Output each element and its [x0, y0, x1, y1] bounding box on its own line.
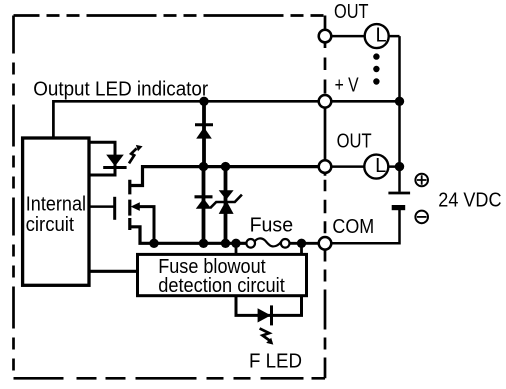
transistor Q1 body arrow head [131, 202, 140, 211]
transistor Q1 channel bar (three segments) [128, 180, 131, 230]
wire: +V rail from internal circuit riser to right vertical bus [53, 101, 399, 138]
fuse end circle left [246, 239, 255, 248]
fuse wavy element [255, 238, 282, 246]
svg-text:Output LED indicator: Output LED indicator [33, 79, 208, 101]
battery plus symbol [415, 174, 428, 187]
wire: detection box sense stub left of fuse [235, 243, 238, 256]
junction node on +V rail at diode column [199, 97, 208, 106]
junction node right bus / +V line [395, 97, 404, 106]
ellipsis dots between loads [373, 53, 379, 59]
module boundary top edge (phantom dashed) [14, 14, 326, 17]
output LED indicator diode (triangle + bar) [106, 155, 124, 167]
wire: COM line from second fuse circle to COM terminal [288, 242, 325, 245]
terminal OUT (second) [319, 160, 332, 173]
svg-text:OUT: OUT [334, 1, 369, 23]
battery - plate (short thick) [392, 205, 406, 210]
fuse blowout detection circuit box [138, 254, 307, 295]
wire: OUT (top) line from terminal through load to right bus [325, 35, 400, 38]
transistor Q1 gate bar [113, 197, 116, 220]
svg-text:Fuse: Fuse [250, 215, 294, 237]
terminal OUT (top) [319, 30, 332, 43]
wire: right vertical bus down to battery + plate [398, 36, 401, 192]
terminal +V [319, 95, 332, 108]
svg-text:COM: COM [332, 216, 374, 238]
top diode D1 (cathode bar + up triangle) [195, 123, 213, 126]
junction node output line / zener column [221, 162, 230, 171]
wire: MOSFET drain stub up to output line, output line to OUT terminal [130, 167, 325, 186]
terminal COM [319, 237, 332, 250]
svg-text:OUT: OUT [337, 130, 372, 152]
module boundary right edge segment: OUT to +V (dashed) [324, 43, 327, 96]
svg-text:circuit: circuit [26, 214, 75, 236]
junction node COM line / source [149, 239, 158, 248]
surge suppression zener D3 (two triangles + Z bar) [219, 190, 234, 200]
wire: battery - plate down and left to COM terminal [328, 210, 400, 243]
module boundary right edge segment: OUT to COM (dashed) [324, 173, 327, 238]
F LED light arrow (lightning pointing down-right) [260, 328, 270, 340]
load L2 circle [364, 155, 388, 179]
wire: F LED loop below detection box [236, 296, 302, 316]
module boundary right edge segment: top corner to OUT terminal [324, 16, 327, 31]
transistor Q1 body arrow stub down to COM line [137, 207, 154, 244]
svg-text:F LED: F LED [249, 351, 302, 373]
wire: detection box sense stub right of fuse [300, 243, 303, 256]
wire: OUT (second) line from terminal through load to right bus [325, 165, 400, 168]
output LED light arrow (lightning) [129, 148, 137, 163]
module boundary bottom edge (phantom dashed) [14, 377, 326, 380]
wire: top diode column (+V line to output line) [202, 101, 206, 166]
svg-text:L: L [375, 155, 386, 177]
svg-text:detection circuit: detection circuit [158, 275, 285, 297]
load L1 circle [365, 24, 389, 48]
F LED diode (right triangle + bar) [258, 308, 271, 322]
junction node right bus / second OUT line [395, 162, 404, 171]
wire: flywheel diode column (output line to COM line) [202, 167, 206, 244]
module boundary left edge (phantom dashed) [12, 16, 15, 379]
wire: surge zener column (output line to COM line) [224, 167, 228, 244]
transistor Q1 gate lead [89, 205, 115, 208]
svg-text:L: L [376, 24, 387, 46]
junction node COM line / diode column [199, 239, 208, 248]
wire: internal circuit to detection box link [89, 270, 138, 273]
fuse end circle right [281, 239, 290, 248]
module boundary right edge segment: COM to bottom corner (dashed) [324, 250, 327, 379]
svg-text:24 VDC: 24 VDC [438, 189, 501, 211]
module boundary right edge segment: +V to OUT (solid) [324, 108, 327, 161]
wire: output LED indicator loop [89, 142, 115, 175]
junction node COM line / zener column [221, 239, 230, 248]
battery + plate (long) [388, 192, 410, 195]
svg-text:Internal: Internal [26, 193, 86, 215]
battery minus symbol [415, 211, 428, 224]
internal circuit box [23, 138, 89, 285]
junction node output line / diode column [199, 162, 208, 171]
wire: MOSFET source stub down to COM line, COM line to first fuse circle [130, 227, 247, 244]
flywheel diode D2 (cathode bar + up triangle) [195, 195, 213, 198]
junction node COM line / right sense stub [297, 239, 306, 248]
junction node COM line / left sense stub [231, 239, 240, 248]
svg-text:+ V: + V [335, 74, 360, 96]
